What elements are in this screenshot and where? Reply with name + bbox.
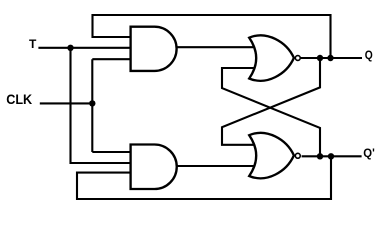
wire T input lead xyxy=(38,47,130,49)
nor-gate U3 top xyxy=(249,35,294,80)
wire cross coupling Q to NOR2 top input xyxy=(222,58,320,145)
node T junction xyxy=(67,45,73,51)
wire AND1 output to NOR1 top input xyxy=(177,46,255,48)
node Q feedback junction xyxy=(327,55,333,61)
svg-text:Q: Q xyxy=(365,48,373,62)
nor-gate U4 bubble xyxy=(295,153,300,158)
wire CLK to AND1 bottom input xyxy=(92,58,130,60)
wire top feedback Q to AND1 top input xyxy=(93,15,331,58)
svg-text:T: T xyxy=(29,37,37,51)
node Q' feedback junction xyxy=(328,153,334,159)
svg-text:Q': Q' xyxy=(363,146,375,160)
nor-gate U3 bubble xyxy=(295,56,300,61)
and-gate U1 top xyxy=(131,27,177,71)
wire T branch down to AND2 middle input xyxy=(71,48,131,163)
wire Q' output line xyxy=(302,155,362,157)
node Q cross junction xyxy=(317,55,323,61)
node CLK junction xyxy=(89,100,95,106)
and-gate U2 bottom xyxy=(131,145,177,190)
wire AND2 output to NOR2 bottom input xyxy=(177,165,256,167)
node Q' cross junction xyxy=(317,153,323,159)
wire CLK vertical branch xyxy=(91,59,93,152)
wire cross coupling Q' to NOR1 bottom input xyxy=(222,68,320,156)
nor-gate U4 bottom xyxy=(249,133,294,178)
wire Q output line xyxy=(301,57,362,59)
svg-text:CLK: CLK xyxy=(6,92,32,107)
wire CLK to AND2 top input xyxy=(92,151,130,153)
wire CLK input lead xyxy=(40,102,93,104)
wire bottom feedback Q' to AND2 bottom input xyxy=(77,156,331,199)
